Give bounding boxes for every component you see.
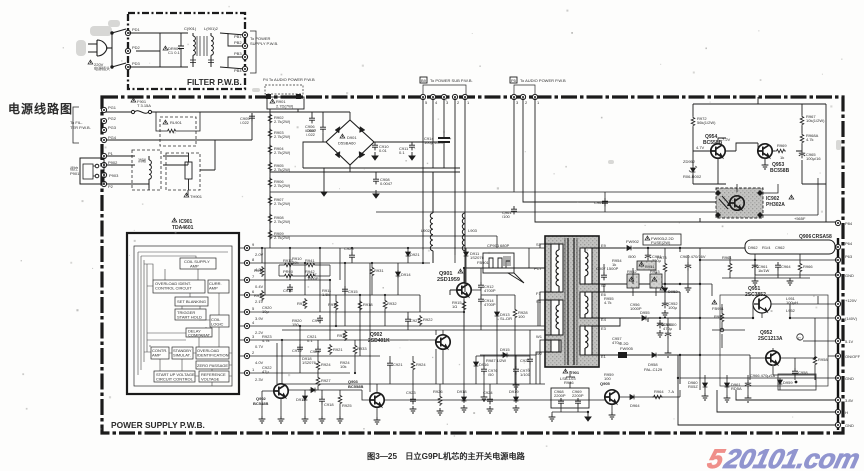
cap C908 to ground [373,176,379,184]
Q952 [750,330,803,375]
internal block: start up voltage control [154,371,195,382]
svg-text:D919: D919 [509,389,519,394]
svg-text:/500: /500 [628,254,637,259]
svg-text:R05Z: R05Z [688,384,698,389]
svg-text:COMPARAT.: COMPARAT. [188,333,211,338]
svg-text:2.2Ω: 2.2Ω [620,341,629,346]
svg-text:+120V: +120V [845,298,857,303]
svg-text:VOLTAGE: VOLTAGE [201,377,220,382]
Q906 CRSA58 regulator rounded box [745,234,838,262]
secondary aux cluster [480,347,627,401]
transformer left terminal wires [536,244,545,384]
svg-text:LOGIC: LOGIC [211,322,224,327]
svg-text:E9: E9 [601,243,607,248]
svg-text:TER P.W.B.: TER P.W.B. [70,125,91,130]
svg-text:IDENTIFICATION: IDENTIFICATION [197,353,229,358]
internal block: overload identification circuit [153,280,205,293]
block rectangle around Q952 [720,295,828,386]
bridge right vertex wire [350,142,444,168]
svg-text:5.1V: 5.1V [845,339,854,344]
fusible FW903 label box [643,234,681,245]
internal block: coil supply amp [180,258,216,269]
middle section rails from IC901 pins [250,236,545,373]
common-mode choke L901 [190,33,214,67]
svg-text:2SD1959: 2SD1959 [437,277,460,283]
svg-text:10k: 10k [340,364,346,369]
svg-text:1k: 1k [612,262,616,267]
small parts column 1 [254,266,433,355]
svg-text:RL901: RL901 [170,120,183,125]
svg-text:CRSA58: CRSA58 [812,234,832,240]
components below regulator [722,255,813,285]
small parts around Q952 [712,300,828,386]
C963 [602,198,608,206]
svg-text:PD1: PD1 [132,27,141,32]
svg-text:RD5A: RD5A [731,386,742,391]
svg-text:C963: C963 [594,200,604,205]
capacitor C901 across line [178,33,184,67]
diode D911 [464,250,469,258]
choke L903 on power-sub feed [462,213,465,251]
svg-text:R987 1/2W: R987 1/2W [486,358,506,363]
junction dots secondary [647,247,816,379]
watermark 520101.com [705,443,863,471]
svg-text:C927: C927 [410,318,420,323]
main filter cap C914 [438,138,450,142]
svg-text:100μ: 100μ [668,305,678,310]
svg-text:E3: E3 [601,326,607,331]
cluster right of Q901 [471,260,528,330]
capacitor C905 [249,113,255,121]
wires inside filter box [128,33,245,69]
svg-text:2.7k(2W): 2.7k(2W) [274,167,291,172]
junction dots [261,247,465,341]
svg-text:2.3V: 2.3V [255,377,264,382]
primary winding upper [545,244,559,292]
core lines [565,238,577,365]
svg-text:R926: R926 [433,389,443,394]
svg-text:3.8V: 3.8V [845,398,854,403]
svg-text:7.2V: 7.2V [722,137,731,142]
svg-text:PG3: PG3 [108,125,117,130]
bridge left vertex wire [303,142,326,168]
svg-text:D917: D917 [296,397,306,402]
svg-text:L902: L902 [421,228,431,233]
fuse F901 symbol on wire [106,110,270,113]
svg-text:150: 150 [292,322,299,327]
svg-text:R961: R961 [722,255,732,260]
svg-text:R964: R964 [654,389,664,394]
Q954 transistor [711,144,725,158]
startup resistor ladder R902-R909 [268,113,291,240]
svg-text:BC558B: BC558B [770,168,790,174]
internal block: delay comparator [186,328,212,337]
svg-text:C: C [798,336,801,341]
mains switch connector box (left outside) [80,158,104,184]
internal block: coil logic [210,315,229,327]
svg-text:CIRCUIT CONTROL: CIRCUIT CONTROL [156,377,194,382]
cap C911 with ground [409,142,415,150]
internal block: standby simulator [172,347,193,359]
svg-text:4.7k: 4.7k [604,300,612,305]
svg-text:To POWER SUB P.W.B.: To POWER SUB P.W.B. [430,78,473,83]
ground at x324 [321,188,327,196]
wires degauss area [106,140,215,196]
svg-text:2.7k(2W): 2.7k(2W) [274,150,291,155]
svg-text:C962: C962 [775,245,785,250]
degauss coil dashed box [132,150,161,190]
svg-text:20101.com: 20101.com [721,443,863,471]
zener ZD952 on left vertical [691,166,696,174]
svg-text:10k(1/2W): 10k(1/2W) [806,118,825,123]
bottom area: Q902 BC548B [253,343,370,423]
svg-text:P5: P5 [511,78,517,83]
svg-text:R922: R922 [423,317,433,322]
cap on audio feed [511,206,517,214]
svg-text:39k: 39k [292,260,298,265]
svg-text:0.1: 0.1 [307,338,313,343]
svg-text:To AUDIO POWER P.W.B: To AUDIO POWER P.W.B [520,78,566,83]
svg-text:P901: P901 [70,171,80,176]
lower mid wires [282,330,545,384]
top connector B9 to POWER SUB P.W.B. [420,77,473,105]
resistor matrix frame [265,248,370,392]
svg-text:R958: R958 [818,357,828,362]
internal block: reference voltage [199,371,229,382]
extra mid components row A [310,246,420,390]
svg-text:R925: R925 [342,403,352,408]
svg-text:1S2076: 1S2076 [302,360,317,365]
svg-text:SL-DR: SL-DR [500,316,512,321]
svg-text:ZD952: ZD952 [683,159,696,164]
svg-text:R924: R924 [416,362,426,367]
svg-text:R927: R927 [321,378,331,383]
shaded fusible resistor R951 [637,261,656,270]
extra labels secondary [604,258,642,381]
svg-text:R931: R931 [374,268,384,273]
svg-text:PH302A: PH302A [766,202,785,208]
diode D952 [663,286,668,294]
secondary winding middle [585,292,599,318]
filter cap C951 [645,252,651,260]
svg-text:3.9V: 3.9V [255,316,264,321]
svg-text:CP901: CP901 [487,243,500,248]
svg-text:R973: R973 [657,255,667,260]
svg-text:图3—25 日立G9PL机芯的主开关电源电路: 图3—25 日立G9PL机芯的主开关电源电路 [367,451,526,461]
svg-text:PR90: PR90 [283,269,294,274]
svg-text:POWER SUPPLY P.W.B.: POWER SUPPLY P.W.B. [111,420,205,430]
svg-text:C915: C915 [348,289,358,294]
winding terminal labels [534,242,607,359]
svg-text:FW902: FW902 [626,239,640,244]
svg-text:FW905: FW905 [620,346,634,351]
T901 label [563,369,568,373]
svg-text:R914: R914 [254,293,264,298]
ground under Q953 [762,162,769,169]
cap C910 with ground [372,142,378,150]
svg-text:C916: C916 [283,288,293,293]
svg-text:D952: D952 [668,289,678,294]
filter right terminals PB1..PB4 [242,32,247,37]
capacitor C909 [309,115,315,123]
svg-text:56k(1/2W): 56k(1/2W) [697,120,716,125]
IC901 pins [239,242,255,376]
svg-text:2SD401K: 2SD401K [368,338,390,344]
svg-text:PD2: PD2 [132,45,141,50]
svg-text:AMP: AMP [209,286,218,291]
svg-text:PB1: PB1 [234,34,242,39]
svg-text:(140V): (140V) [845,316,858,321]
R969 between Q953 and right column [775,149,786,153]
svg-text:0.1: 0.1 [399,150,405,155]
svg-text:FB901: FB901 [477,260,490,265]
svg-text:P1: P1 [108,151,114,156]
svg-text:T 3.15A: T 3.15A [137,103,151,108]
resistor matrix [279,258,330,278]
svg-text:L903: L903 [468,228,478,233]
R901 label box [267,97,304,109]
svg-text:BC548B: BC548B [253,401,268,406]
svg-text:1.5k: 1.5k [322,292,330,297]
svg-text:C960 470/16V: C960 470/16V [680,254,706,259]
svg-text:R933: R933 [357,346,367,351]
svg-text:R921: R921 [333,347,343,352]
svg-text:SET BLANKING: SET BLANKING [177,299,206,304]
5V regulator transistor Q905 [600,381,680,419]
stepped wires to right bus [678,355,836,425]
svg-text:R932: R932 [387,301,397,306]
svg-text:C924: C924 [483,390,493,395]
svg-text:PG2: PG2 [108,116,117,121]
IC901 TDA4601 control IC block [127,218,255,394]
svg-text:1k: 1k [780,155,784,160]
emitter resistor R915 [462,300,466,311]
long feedback wires to photocoupler [270,178,818,215]
wires lower right [680,248,838,390]
winding windows (white notches) [551,244,592,355]
shaded fusible resistors R952/R953 [627,274,639,288]
svg-text:2.7k(2W): 2.7k(2W) [274,201,291,206]
svg-text:P902: P902 [108,160,118,165]
extra labels mid [262,256,350,374]
svg-text:AMP: AMP [190,264,199,269]
svg-text:100μ 400V: 100μ 400V [424,140,444,145]
svg-text:D959: D959 [783,380,793,385]
svg-text:10μ: 10μ [262,309,269,314]
svg-text:P903: P903 [109,173,119,178]
svg-text:C917: C917 [312,318,322,323]
svg-text:/.0047: /.0047 [305,128,317,133]
POWER SUPPLY P.W.B. dashed enclosure [70,77,843,433]
svg-text:SUPPLY P.W.B.: SUPPLY P.W.B. [250,41,278,46]
svg-text:PD3: PD3 [132,61,141,66]
svg-text:CONTROL CIRCUIT: CONTROL CIRCUIT [155,286,192,291]
choke L902 on power-sub feed [430,172,433,263]
svg-text:C919: C919 [292,348,302,353]
svg-text:4700P: 4700P [484,302,496,307]
svg-text:电源插头: 电源插头 [94,65,110,71]
svg-text:D901: D901 [347,135,357,140]
bottom bus wires under bridge [270,168,460,188]
IC901 pin voltage labels [255,252,264,382]
top connector P5 to AUDIO POWER P.W.B. [510,77,566,105]
svg-text:P84: P84 [845,221,853,226]
svg-text:C964: C964 [781,264,791,269]
warning + 220V label under plug [88,60,93,64]
rail E4/E3 (12V) [599,318,648,326]
svg-text:ZERO PASSAGE: ZERO PASSAGE [197,363,228,368]
Q953 transistor [758,144,772,158]
internal block: zero passage ident [196,361,229,369]
svg-text:PG1: PG1 [108,105,117,110]
internal block: control amp [151,347,169,359]
svg-text:C(901): C(901) [184,26,197,31]
svg-text:2.7k(2W): 2.7k(2W) [274,219,291,224]
svg-text:L952: L952 [786,308,796,313]
svg-text:R924: R924 [321,362,331,367]
rail W (5V) [599,354,650,356]
svg-text:FUSE(2W): FUSE(2W) [651,240,671,245]
bottom caps box C971 C972 [549,371,591,421]
svg-text:2200P: 2200P [554,393,566,398]
svg-text:W1: W1 [536,334,543,339]
svg-text:D5SBA60: D5SBA60 [338,141,356,146]
FILTER P.W.B. dashed enclosure [76,13,841,164]
svg-text:PAL-C129: PAL-C129 [644,367,663,372]
verticals from connector B9 [423,97,465,292]
rectifier FW902 [625,246,633,251]
svg-text:/.022: /.022 [240,120,250,125]
svg-text:FB951: FB951 [712,306,725,311]
bracket to power supply pwb [250,31,256,73]
svg-text:2.7Ω(7W): 2.7Ω(7W) [276,104,294,109]
svg-text:R918: R918 [363,302,373,307]
svg-text:ON/OFF: ON/OFF [845,354,861,359]
svg-text:TDA4601: TDA4601 [172,225,194,231]
svg-text:C1 0.1: C1 0.1 [168,50,181,55]
svg-text:D964: D964 [630,403,640,408]
svg-text:FILTER P.W.B.: FILTER P.W.B. [187,78,242,87]
mid small parts row near y=362 [387,356,533,371]
svg-text:R919: R919 [337,333,347,338]
svg-text:C966 470μ/16: C966 470μ/16 [750,373,776,378]
svg-text:B9: B9 [421,78,427,83]
svg-text:R941: R941 [305,258,315,263]
svg-text:Q906: Q906 [799,234,811,240]
svg-text:R952: R952 [627,269,637,274]
svg-text:S1: S1 [536,242,542,247]
svg-text:4.7k: 4.7k [262,338,270,343]
svg-text:100: 100 [518,314,525,319]
svg-text:470μ: 470μ [612,340,622,345]
waveform inset callout [483,243,524,283]
vertical interconnects mid [262,248,455,384]
svg-text:R917: R917 [297,301,307,306]
svg-text:L(901)2: L(901)2 [204,26,219,31]
svg-text:2SC1213A: 2SC1213A [758,336,783,342]
svg-text:1Ω: 1Ω [452,304,457,309]
bottom right component row [688,373,816,402]
small box bottom of Q952 block [778,374,816,390]
fuse F901 label [131,98,136,102]
upper-right error amplifier circuit [683,97,853,226]
svg-text:/50: /50 [488,372,494,377]
capacitor C906 at bridge left [320,124,326,132]
svg-text:2.7k(2W): 2.7k(2W) [274,183,291,188]
svg-text:PB3: PB3 [234,51,242,56]
svg-text:R06-R002: R06-R002 [683,174,702,179]
scan noise [76,20,841,164]
svg-text:C928: C928 [310,349,320,354]
svg-text:2200P: 2200P [572,393,584,398]
svg-text:R969: R969 [777,143,787,148]
svg-text:1000P: 1000P [630,306,642,311]
bottom parts row [296,388,352,423]
svg-text:1k/1W: 1k/1W [758,268,770,273]
svg-text:C921: C921 [393,362,403,367]
internal block: set blanking function [175,297,208,306]
svg-text:+565F: +565F [794,216,806,221]
svg-text:SIMULAT.: SIMULAT. [173,353,191,358]
bracket to filter pwb [73,107,79,143]
internal block: current amp [208,280,229,293]
right bus line [837,238,839,430]
secondary winding upper [585,248,599,284]
svg-text:T901: T901 [570,370,580,375]
svg-text:D921: D921 [410,252,420,257]
internal block: trigger start hold [175,309,206,320]
svg-text:R953: R953 [650,269,660,274]
svg-text:Q905: Q905 [600,381,611,386]
svg-text:100: 100 [604,376,611,381]
warning DR901 label [163,46,168,50]
svg-text:TH901: TH901 [190,194,203,199]
relay/thermistor dashed box on live wire [156,112,200,146]
svg-text:H: H [845,410,848,415]
svg-text:D914: D914 [401,272,411,277]
R972 on left vertical [691,116,695,127]
svg-text:2.7k(2W): 2.7k(2W) [274,134,291,139]
svg-text:100μ/16: 100μ/16 [806,156,821,161]
left border terminals P1,P902,P903,P2 [101,153,106,158]
left border terminals PG1-PG4 [101,107,106,112]
svg-text:R1/4: R1/4 [762,245,771,250]
cap C952 [662,300,668,308]
wire PG4 row [106,113,252,140]
posistor dashed box TH901 [166,153,200,190]
svg-text:BC558B: BC558B [348,384,363,389]
svg-text:1/100: 1/100 [520,372,531,377]
svg-text:GND: GND [845,376,854,381]
secondary rail E9/S2 [599,284,700,330]
svg-text:2.0V: 2.0V [255,252,264,257]
svg-text:0.4V: 0.4V [255,284,264,289]
svg-text:GND: GND [845,273,854,278]
internal wiring mesh [138,252,232,386]
svg-text:P64: P64 [845,241,853,246]
secondary winding lower [585,326,599,355]
filter box left terminals PG1 PG2 PG3 [125,30,130,35]
svg-text:D915: D915 [500,347,510,352]
transformer T901 [534,236,607,381]
verticals from connector P5 routed right [514,97,716,222]
svg-text:PB2: PB2 [234,40,242,45]
svg-text:R916: R916 [328,302,338,307]
svg-text:消磁: 消磁 [138,157,146,163]
svg-text:C922: C922 [520,358,530,363]
svg-text:P63: P63 [845,254,853,259]
svg-text:R986: R986 [564,380,574,385]
